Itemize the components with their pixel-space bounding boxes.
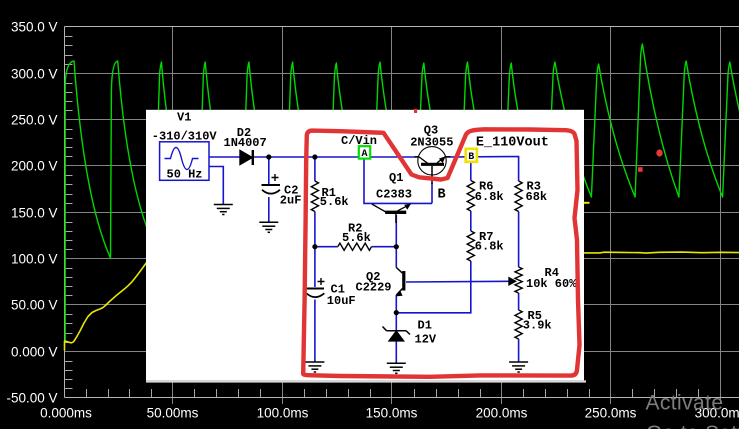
svg-text:5.6k: 5.6k	[342, 231, 371, 245]
svg-text:10uF: 10uF	[327, 294, 356, 308]
ground under V1	[214, 204, 233, 206]
wire Q3 emitter to B to R3	[447, 157, 519, 182]
wire Q2 emitter down to D1 junction	[395, 295, 397, 312]
svg-text:150.0ms: 150.0ms	[366, 406, 418, 421]
svg-text:C2229: C2229	[356, 280, 392, 294]
R4 wiper arrow	[509, 278, 516, 285]
wire C2 branch	[268, 157, 270, 184]
red annotation rectangle	[303, 129, 579, 376]
svg-text:2uF: 2uF	[280, 193, 302, 207]
node A marker	[359, 146, 370, 158]
svg-text:Q1: Q1	[389, 171, 403, 185]
junction node	[312, 244, 317, 249]
wire R1 branch	[314, 157, 316, 181]
junction node	[312, 154, 317, 159]
junction node	[266, 154, 271, 159]
svg-text:5.6k: 5.6k	[320, 195, 349, 209]
svg-text:250.0 V: 250.0 V	[11, 112, 58, 127]
zener diode D1	[389, 331, 404, 341]
red dot right 1	[656, 149, 662, 156]
wire Q2 collector up	[395, 247, 397, 268]
source V1 sine	[165, 148, 199, 170]
svg-text:-310/310V: -310/310V	[152, 130, 218, 144]
wire B to R6	[470, 161, 472, 181]
diode D2	[240, 151, 252, 165]
wire Q1 emitter to Q3 base	[431, 183, 433, 203]
svg-text:6.8k: 6.8k	[475, 240, 504, 254]
ground under C2	[259, 221, 278, 223]
resistor R7	[467, 231, 474, 261]
wire R4 to R5	[518, 293, 520, 310]
svg-text:Activate: Activate	[646, 392, 724, 415]
svg-text:100.0 V: 100.0 V	[11, 251, 58, 266]
resistor R4 potentiometer	[515, 267, 522, 293]
resistor R5	[515, 310, 522, 339]
transistor Q2 C2229	[402, 271, 405, 291]
svg-text:0.000ms: 0.000ms	[40, 406, 92, 421]
resistor R6	[467, 181, 474, 212]
red pen dash above Q3	[414, 109, 417, 113]
wire node A to Q1 collector	[364, 158, 432, 203]
axis minor ticks	[65, 37, 699, 398]
wire R2 to junctions	[315, 246, 338, 248]
svg-text:C2383: C2383	[376, 188, 412, 202]
green trace V(C2)	[65, 44, 739, 341]
svg-text:2N3055: 2N3055	[410, 135, 453, 149]
plot axes	[65, 27, 739, 398]
yellow trace Vout steady	[584, 252, 739, 253]
svg-text:50.00ms: 50.00ms	[147, 406, 199, 421]
svg-text:350.0 V: 350.0 V	[11, 19, 58, 34]
wire R6 to R7	[470, 211, 472, 231]
svg-text:12V: 12V	[415, 333, 437, 347]
Activate Windows watermark	[646, 392, 739, 429]
svg-text:100.0ms: 100.0ms	[257, 406, 309, 421]
wire R7 bottom to D1 node	[396, 261, 471, 313]
wire V1 lower stub to ground	[209, 167, 223, 205]
svg-text:68k: 68k	[526, 190, 548, 204]
svg-text:300.0 V: 300.0 V	[11, 66, 58, 81]
wire C1 branch	[314, 247, 316, 287]
wire Q2 base to R4 wiper	[406, 280, 510, 283]
svg-text:D1: D1	[418, 319, 432, 333]
ground under C1	[305, 361, 324, 363]
wire D1 to junction and ground	[395, 312, 397, 330]
svg-text:200.0 V: 200.0 V	[11, 158, 58, 173]
svg-text:250.0ms: 250.0ms	[585, 406, 637, 421]
svg-text:B: B	[468, 152, 474, 163]
resistor R3	[515, 181, 522, 212]
red dot right 2	[638, 167, 643, 172]
schematic panel	[146, 110, 584, 381]
source V1 box	[160, 142, 209, 181]
svg-text:Go to Setti: Go to Setti	[646, 422, 739, 429]
ground under D1	[387, 362, 406, 364]
svg-text:6.8k: 6.8k	[475, 190, 504, 204]
resistor R1	[311, 181, 318, 212]
capacitor C2 plates	[262, 184, 281, 186]
svg-text:200.0ms: 200.0ms	[476, 406, 528, 421]
yellow glitch at panel edge	[584, 202, 590, 204]
node B marker	[466, 149, 477, 162]
svg-text:B: B	[438, 188, 446, 203]
wire R5 to ground	[518, 339, 520, 362]
svg-text:V1: V1	[177, 111, 191, 125]
svg-text:1N4007: 1N4007	[224, 136, 267, 150]
svg-text:150.0 V: 150.0 V	[11, 205, 58, 220]
svg-text:0.000 V: 0.000 V	[11, 344, 58, 359]
capacitor C1 plates	[306, 288, 324, 290]
junction node	[394, 244, 399, 249]
junction node	[394, 310, 399, 315]
x axis labels	[40, 406, 739, 421]
svg-text:-50.00 V: -50.00 V	[6, 390, 57, 405]
ground under R5	[509, 361, 528, 363]
resistor R2	[338, 243, 372, 250]
svg-text:3.9k: 3.9k	[523, 318, 552, 332]
transistor Q3 2N3055	[418, 147, 446, 175]
wire main dc bus	[209, 156, 240, 158]
wire R3 to R4	[518, 212, 520, 268]
svg-text:10k 60%: 10k 60%	[526, 277, 577, 291]
svg-text:50 Hz: 50 Hz	[167, 168, 203, 182]
svg-text:50.00 V: 50.00 V	[11, 297, 58, 312]
y axis labels	[6, 19, 57, 405]
svg-text:C/Vin: C/Vin	[341, 134, 377, 148]
svg-text:E_110Vout: E_110Vout	[476, 135, 549, 150]
yellow trace Vout rising	[65, 262, 148, 351]
transistor Q1 C2383	[385, 211, 406, 214]
wire Q1 base down to R2 junction	[395, 215, 397, 247]
svg-text:A: A	[361, 149, 367, 160]
